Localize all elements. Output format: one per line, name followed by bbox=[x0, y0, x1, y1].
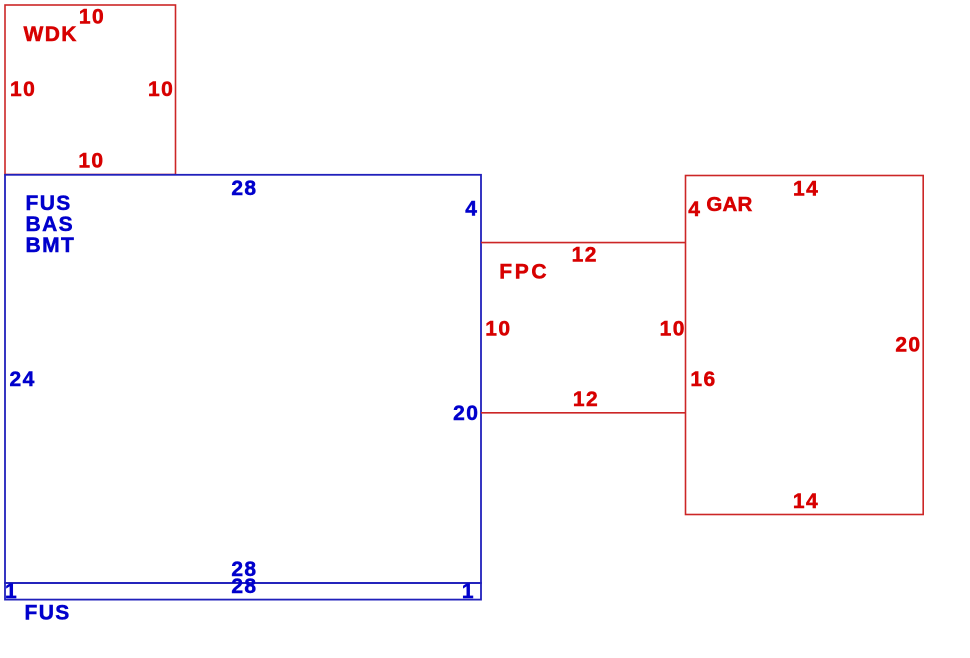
svg-text:4: 4 bbox=[688, 198, 701, 221]
svg-text:24: 24 bbox=[10, 368, 36, 391]
svg-text:10: 10 bbox=[10, 78, 36, 101]
svg-text:FPC: FPC bbox=[499, 261, 549, 284]
svg-text:16: 16 bbox=[690, 368, 716, 391]
strip FUS outline bbox=[5, 583, 481, 600]
room FUS/BAS/BMT outline bbox=[5, 175, 481, 583]
svg-text:14: 14 bbox=[793, 490, 819, 513]
room FPC bottom wall bbox=[481, 412, 686, 414]
svg-text:WDK: WDK bbox=[24, 23, 78, 46]
svg-text:10: 10 bbox=[78, 149, 104, 172]
svg-text:10: 10 bbox=[485, 317, 511, 340]
svg-text:BAS: BAS bbox=[26, 213, 75, 236]
svg-text:12: 12 bbox=[573, 388, 599, 411]
svg-text:GAR: GAR bbox=[706, 193, 752, 216]
svg-text:BMT: BMT bbox=[26, 234, 76, 257]
svg-text:10: 10 bbox=[660, 318, 686, 341]
svg-text:20: 20 bbox=[453, 402, 479, 425]
svg-text:4: 4 bbox=[465, 198, 478, 221]
svg-text:28: 28 bbox=[231, 177, 257, 200]
svg-text:10: 10 bbox=[79, 6, 105, 29]
svg-text:10: 10 bbox=[148, 78, 174, 101]
room GAR outline bbox=[686, 176, 924, 515]
svg-text:FUS: FUS bbox=[26, 192, 72, 215]
svg-text:20: 20 bbox=[895, 334, 921, 357]
svg-text:14: 14 bbox=[793, 177, 819, 200]
svg-text:1: 1 bbox=[462, 580, 475, 603]
room WDK outline bbox=[5, 5, 176, 175]
svg-text:FUS: FUS bbox=[25, 602, 71, 625]
room FPC top wall bbox=[481, 242, 686, 244]
svg-text:12: 12 bbox=[572, 244, 598, 267]
svg-text:1: 1 bbox=[5, 580, 18, 603]
svg-text:28: 28 bbox=[231, 575, 257, 598]
